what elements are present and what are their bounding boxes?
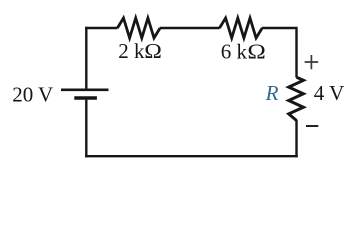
polarity sign + at top of R — [305, 55, 319, 69]
wire: resistor R2 to top-right corner and down to resistor R — [262, 27, 297, 78]
svg-text:R: R — [265, 81, 279, 105]
battery VS: negative plate (short, thick) — [74, 96, 97, 99]
resistor R2 (6 kOhm) zigzag — [220, 18, 263, 38]
svg-text:6 k: 6 k — [221, 40, 248, 64]
svg-text:2 k: 2 k — [118, 39, 145, 63]
wire: bottom horizontal from bottom-left corner to bottom-right corner — [85, 155, 298, 157]
polarity sign - at bottom of R — [306, 125, 318, 127]
svg-text:4 V: 4 V — [314, 81, 345, 105]
battery VS: positive plate (long) — [61, 89, 109, 92]
resistor R1 (2 kOhm) zigzag — [117, 18, 160, 38]
wire: between resistor R1 and resistor R2 — [160, 27, 220, 29]
wire: battery negative plate down to bottom-left corner — [85, 100, 87, 158]
wire: top-left corner down to battery positive plate — [85, 27, 87, 89]
svg-text:20 V: 20 V — [12, 83, 53, 107]
svg-text:Ω: Ω — [144, 39, 162, 62]
wire: resistor R down to bottom-right corner — [295, 120, 297, 157]
resistor R (vertical) zigzag — [289, 77, 304, 120]
wire: top-left corner to resistor R1 — [85, 27, 117, 29]
svg-text:Ω: Ω — [247, 40, 265, 63]
